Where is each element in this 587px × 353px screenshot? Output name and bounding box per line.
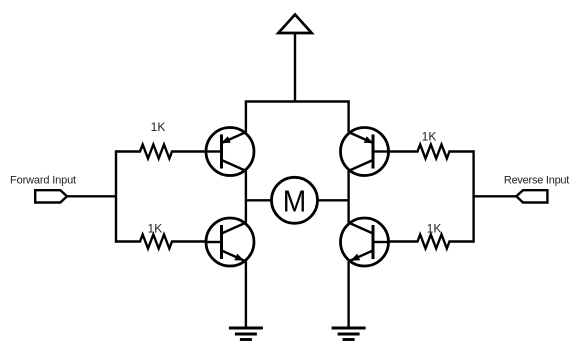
svg-text:1K: 1K	[422, 130, 437, 144]
svg-text:M: M	[283, 185, 306, 220]
svg-text:1K: 1K	[427, 221, 442, 235]
svg-text:Reverse Input: Reverse Input	[504, 175, 569, 187]
svg-text:1K: 1K	[148, 221, 163, 235]
svg-text:1K: 1K	[151, 120, 166, 134]
svg-text:Forward Input: Forward Input	[10, 175, 76, 187]
